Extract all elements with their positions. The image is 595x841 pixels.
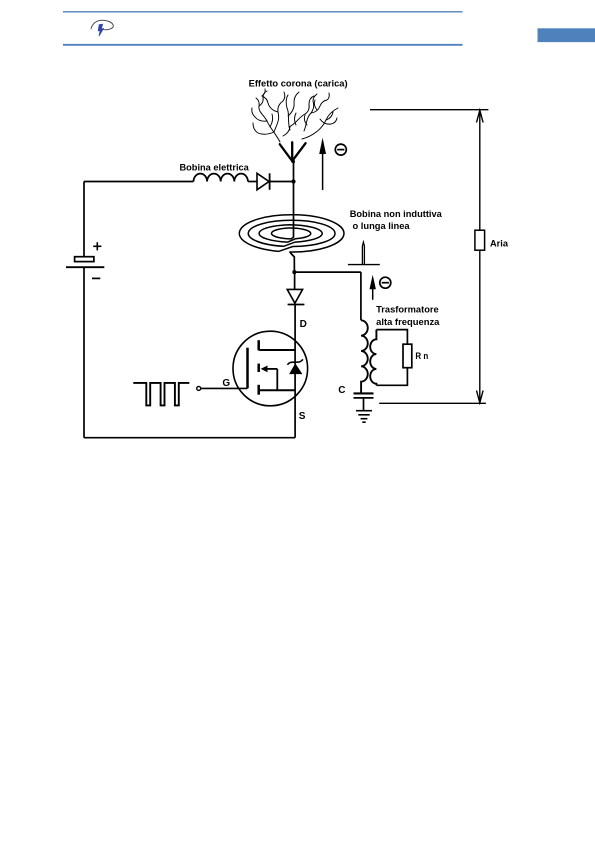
svg-text:G: G xyxy=(222,378,230,389)
svg-text:o lunga linea: o lunga linea xyxy=(353,220,411,231)
wire: left vertical battery bottom xyxy=(83,267,85,438)
MOSFET drain stub xyxy=(259,349,295,351)
diode D1 xyxy=(257,173,270,190)
node: junction dot below spiral xyxy=(292,270,296,274)
wire: left vertical battery top xyxy=(83,182,85,257)
MOSFET gate plate xyxy=(246,348,249,389)
battery B1 negative plate xyxy=(66,266,104,268)
header rule top xyxy=(63,11,463,13)
wire: battery plus to inductor xyxy=(84,181,194,183)
wire: antenna vertical (trident to spiral center) xyxy=(293,161,295,238)
svg-text:Effetto corona (carica): Effetto corona (carica) xyxy=(249,77,348,88)
pulse spike symbol xyxy=(348,242,380,264)
header rule bottom xyxy=(63,44,463,46)
gate drive pulse waveform xyxy=(133,383,189,406)
transformer T1 primary winding xyxy=(361,320,368,393)
svg-text:Aria: Aria xyxy=(490,237,509,248)
negative charge symbol (transformer) xyxy=(380,277,391,288)
ground xyxy=(356,411,372,423)
transformer T1 secondary winding xyxy=(370,330,376,386)
wire: drain vertical through MOSFET to source rail xyxy=(294,305,296,438)
wire: Rn bottom to secondary bottom xyxy=(376,368,407,386)
svg-text:S: S xyxy=(299,411,306,422)
node: junction dot at drain-top xyxy=(291,179,295,183)
wire: inductor to diode D1 xyxy=(248,181,257,183)
MOSFET Q1 body circle xyxy=(233,331,308,406)
capacitor C xyxy=(354,393,374,398)
MOSFET channel segments xyxy=(257,340,260,395)
resistor Rn xyxy=(403,344,412,368)
MOSFET body arrow xyxy=(261,366,278,391)
header logo xyxy=(91,20,113,36)
wire: secondary top to Rn xyxy=(376,330,407,345)
svg-text:Bobina non induttiva: Bobina non induttiva xyxy=(350,208,443,219)
dimension line: bottom horizontal xyxy=(379,402,486,404)
spiral coil: Bobina non induttiva o lunga linea xyxy=(239,215,344,252)
svg-text:C: C xyxy=(338,385,345,396)
inductor L1 Bobina elettrica xyxy=(194,174,248,182)
battery B1 positive plate xyxy=(75,257,94,262)
wire: capacitor to ground xyxy=(363,398,365,411)
dimension line: Aria vertical with arrowheads xyxy=(477,110,484,403)
node: trident apex xyxy=(291,160,295,164)
air gap symbol (rectangle on Aria line) xyxy=(475,230,485,250)
svg-text:Trasformatore: Trasformatore xyxy=(376,304,439,315)
arrow up (near transformer) xyxy=(370,275,376,300)
diode D2 (pointing down) xyxy=(287,289,304,304)
battery B1 plus sign xyxy=(93,242,101,250)
wire: junction down to diode D2 xyxy=(294,272,296,289)
svg-text:R n: R n xyxy=(415,350,428,361)
battery B1 minus sign xyxy=(92,277,100,279)
arrow: charge direction (up, near corona) xyxy=(319,138,326,190)
svg-text:D: D xyxy=(300,319,307,330)
corona discharge branches xyxy=(252,89,338,142)
corona electrode (trident) xyxy=(280,142,306,161)
dimension line: top horizontal xyxy=(370,109,488,111)
wire: branch corner down to transformer primary xyxy=(360,272,362,320)
MOSFET source stub xyxy=(259,389,295,391)
wire: spiral exit jog down to junction xyxy=(290,252,295,272)
wire: junction to transformer branch xyxy=(294,271,361,273)
svg-text:alta frequenza: alta frequenza xyxy=(376,316,440,327)
MOSFET body diode (zener) xyxy=(287,359,303,373)
negative charge symbol (top) xyxy=(335,144,346,155)
wire: bottom rail xyxy=(84,437,295,439)
svg-text:Bobina elettrica: Bobina elettrica xyxy=(180,162,250,173)
header tab xyxy=(538,28,595,42)
wire: diode D1 to node xyxy=(270,181,294,183)
wire: gate xyxy=(201,387,248,389)
gate terminal circle xyxy=(197,386,201,390)
